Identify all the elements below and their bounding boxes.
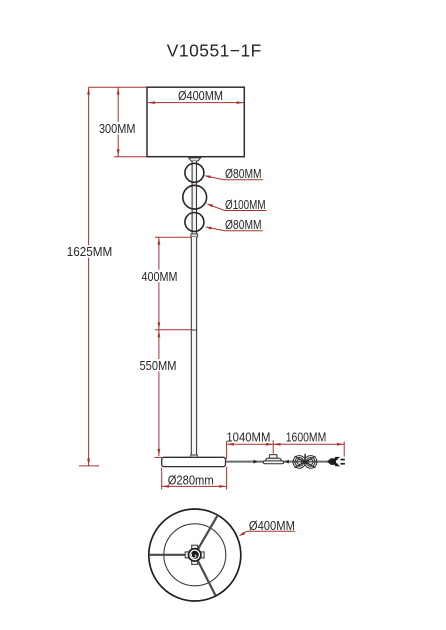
bottom view: spokes [149,515,218,595]
inline switch [263,455,283,464]
dimension shade diameter 400MM [148,102,244,104]
glass ball 3 (80mm) [185,213,204,232]
svg-text:1040MM: 1040MM [226,429,270,444]
lampshade [147,87,244,157]
base slab [162,457,226,466]
coiled cord bundle [293,454,317,468]
bottom view: hub [189,549,201,561]
extension line top [89,86,147,88]
upper pole through glass balls [192,161,196,236]
svg-text:Ø400MM: Ø400MM [249,518,295,533]
bottom view: inner diffuser circle [164,524,226,586]
dimension cord 1040MM [227,440,274,459]
svg-text:1625MM: 1625MM [67,244,113,259]
dimension base 280mm [162,467,227,490]
extension line bottom [114,156,147,158]
bottom view: hub tabs [185,545,204,564]
svg-text:300MM: 300MM [99,121,136,136]
svg-text:V10551−1F: V10551−1F [167,41,262,61]
pole foot [191,455,198,457]
svg-text:Ø80MM: Ø80MM [225,166,262,181]
floor extension line [79,465,99,467]
dimension 300MM (shade height) [89,87,147,157]
plug [327,457,345,466]
dimension cord 1600MM [273,442,344,457]
cord clip right [285,460,289,464]
dimension 400MM (upper pole section) [155,237,191,329]
dimension overall height 1625MM [79,87,99,466]
collar under ball 3 [191,234,198,237]
hub swirl [191,553,196,558]
svg-text:Ø400MM: Ø400MM [178,88,223,103]
power cord from base [226,461,331,463]
dimension 550MM (lower pole section) [155,330,163,458]
svg-text:Ø280mm: Ø280mm [168,472,214,487]
lower pole [191,237,196,458]
pole joint seam [191,329,196,331]
shade collar / finial [189,158,201,161]
glass ball 2 (100mm) [183,185,207,209]
svg-text:400MM: 400MM [142,269,178,284]
svg-text:Ø80MM: Ø80MM [225,217,262,232]
svg-text:Ø100MM: Ø100MM [225,197,266,212]
svg-text:1600MM: 1600MM [286,429,327,444]
cord clip left [254,460,258,464]
bottom view: outer shade circle [149,509,241,601]
glass ball 1 (80mm) [185,163,204,182]
svg-text:550MM: 550MM [140,358,177,373]
